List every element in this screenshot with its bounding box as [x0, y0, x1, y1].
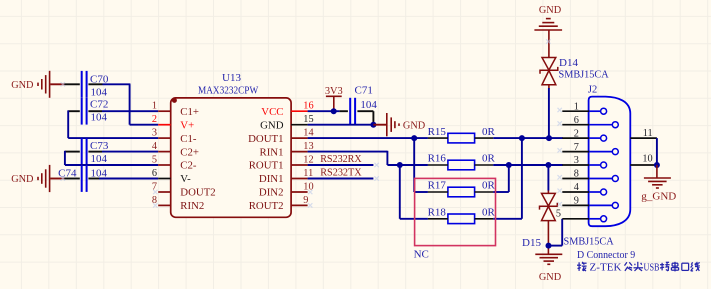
- svg-text:11: 11: [643, 128, 653, 139]
- svg-text:4: 4: [574, 182, 579, 193]
- svg-text:C71: C71: [355, 85, 373, 97]
- svg-text:DIN2: DIN2: [259, 187, 284, 199]
- svg-text:DOUT1: DOUT1: [248, 133, 283, 145]
- svg-text:C72: C72: [90, 99, 108, 111]
- svg-text:C2-: C2-: [180, 160, 197, 172]
- svg-text:D Connector 9: D Connector 9: [577, 250, 635, 261]
- svg-text:VCC: VCC: [261, 106, 283, 118]
- svg-text:4: 4: [152, 141, 157, 152]
- svg-text:3: 3: [574, 155, 579, 166]
- svg-text:RIN1: RIN1: [260, 146, 284, 158]
- svg-text:7: 7: [574, 142, 579, 153]
- svg-text:D15: D15: [522, 237, 541, 249]
- svg-text:RIN2: RIN2: [180, 200, 204, 212]
- svg-text:R15: R15: [428, 126, 447, 138]
- svg-text:SMBJ15CA: SMBJ15CA: [559, 69, 609, 81]
- svg-text:3V3: 3V3: [325, 86, 343, 97]
- svg-text:DOUT2: DOUT2: [180, 187, 215, 199]
- svg-text:C1-: C1-: [180, 133, 197, 145]
- svg-text:12: 12: [303, 154, 313, 165]
- svg-text:16: 16: [303, 101, 313, 112]
- svg-text:11: 11: [303, 168, 313, 179]
- svg-text:0R: 0R: [482, 126, 496, 138]
- svg-text:C73: C73: [90, 140, 109, 152]
- svg-text:SMBJ15CA: SMBJ15CA: [564, 235, 614, 247]
- svg-text:USB: USB: [644, 262, 660, 273]
- svg-text:104: 104: [91, 167, 108, 179]
- svg-text:1: 1: [152, 101, 157, 112]
- svg-text:V-: V-: [180, 173, 191, 185]
- svg-text:0R: 0R: [482, 153, 496, 165]
- svg-text:13: 13: [303, 141, 313, 152]
- svg-text:ROUT2: ROUT2: [249, 200, 284, 212]
- svg-text:GND: GND: [11, 174, 34, 185]
- svg-text:9: 9: [574, 196, 579, 207]
- svg-text:C70: C70: [90, 74, 109, 86]
- svg-text:R17: R17: [428, 180, 447, 192]
- svg-text:C1+: C1+: [180, 106, 199, 118]
- svg-text:J2: J2: [588, 84, 597, 95]
- svg-text:104: 104: [91, 153, 108, 165]
- svg-text:MAX3232CPW: MAX3232CPW: [198, 86, 258, 97]
- svg-text:15: 15: [303, 114, 313, 125]
- svg-text:V+: V+: [180, 119, 194, 131]
- svg-text:0R: 0R: [482, 180, 496, 192]
- svg-text:R16: R16: [428, 153, 447, 165]
- svg-text:R18: R18: [428, 207, 447, 219]
- svg-text:U13: U13: [222, 72, 241, 84]
- svg-text:6: 6: [152, 168, 157, 179]
- svg-text:104: 104: [91, 87, 108, 99]
- svg-text:GND: GND: [260, 119, 284, 131]
- svg-text:RS232RX: RS232RX: [320, 154, 362, 165]
- svg-text:0R: 0R: [482, 207, 496, 219]
- svg-text:10: 10: [642, 154, 652, 165]
- svg-text:5: 5: [556, 209, 561, 220]
- svg-text:GND: GND: [539, 5, 562, 16]
- svg-text:Z-TEK: Z-TEK: [590, 262, 622, 273]
- svg-text:104: 104: [91, 112, 108, 124]
- svg-text:5: 5: [152, 154, 157, 165]
- svg-text:2: 2: [574, 128, 579, 139]
- svg-text:ROUT1: ROUT1: [249, 160, 284, 172]
- svg-text:104: 104: [360, 99, 377, 111]
- svg-text:GND: GND: [539, 272, 562, 283]
- svg-text:C2+: C2+: [180, 146, 199, 158]
- svg-text:RS232TX: RS232TX: [320, 168, 362, 179]
- svg-text:8: 8: [574, 169, 579, 180]
- svg-text:NC: NC: [414, 248, 429, 260]
- svg-text:DIN1: DIN1: [259, 173, 284, 185]
- svg-text:GND: GND: [403, 120, 426, 131]
- svg-text:GND: GND: [11, 80, 34, 91]
- svg-text:1: 1: [574, 101, 579, 112]
- svg-text:3: 3: [152, 128, 157, 139]
- svg-text:2: 2: [152, 114, 157, 125]
- svg-text:g_GND: g_GND: [641, 191, 676, 203]
- svg-text:14: 14: [303, 128, 313, 139]
- svg-text:9: 9: [303, 195, 308, 206]
- svg-text:D14: D14: [559, 57, 578, 69]
- svg-text:6: 6: [574, 115, 579, 126]
